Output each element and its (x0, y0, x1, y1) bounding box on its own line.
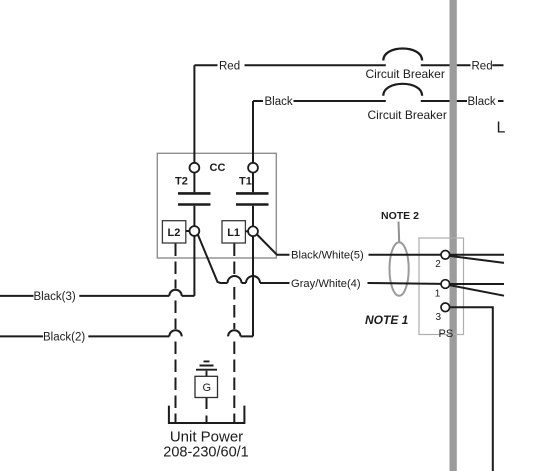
hop on Gray/White(4) wire over L1 feed wire (246, 276, 260, 283)
wire L1 junction diagonal to Black/White(5) (257, 234, 442, 255)
svg-text:PS: PS (439, 328, 454, 340)
svg-text:Unit Power: Unit Power (170, 429, 243, 446)
junction circle at L1 (248, 226, 258, 236)
svg-text:L: L (497, 120, 506, 137)
terminal L1 box (222, 221, 245, 243)
contact T1 upper stem (252, 173, 254, 193)
svg-text:3: 3 (436, 312, 442, 323)
plug PS terminal 1 wires (450, 284, 505, 296)
wire Red vertical to T2 (193, 65, 195, 163)
contact T2 bars (178, 193, 211, 204)
contactor CC enclosure box (157, 153, 276, 258)
plug PS connector box (419, 238, 464, 335)
svg-text:Black: Black (468, 96, 496, 108)
terminal T1 circle (248, 163, 258, 173)
hop on Black(3) wire over dashed line (169, 290, 181, 296)
plug PS terminal 3 circle (441, 303, 450, 312)
plug PS terminal 1 circle (441, 280, 450, 289)
wire Black horizontal segments (253, 100, 450, 102)
dashed line L2 to unit power (175, 244, 177, 423)
wire Black stub right of panel (457, 100, 504, 102)
svg-text:G: G (203, 382, 212, 394)
circuit breaker CB1 arc (383, 49, 422, 61)
svg-text:NOTE 1: NOTE 1 (365, 313, 409, 327)
svg-text:Red: Red (472, 60, 493, 72)
svg-text:1: 1 (435, 288, 441, 299)
NOTE 2 ellipse (field wiring marker) (390, 242, 409, 296)
wire Red stub right of panel (457, 64, 504, 66)
ground symbol (196, 361, 217, 369)
plug PS terminal 2 wires (450, 255, 505, 263)
svg-text:Circuit Breaker: Circuit Breaker (368, 108, 447, 122)
wire Red horizontal segments (194, 64, 449, 66)
contact T1 lower stem (252, 206, 254, 227)
wire Black(2) from left (0, 335, 169, 337)
dashed line G to unit power (206, 398, 208, 423)
terminal L2 box (162, 221, 185, 243)
svg-text:Black(2): Black(2) (43, 331, 85, 343)
svg-text:T2: T2 (175, 176, 188, 188)
svg-text:Black: Black (265, 96, 293, 108)
wire Black(3) from left (0, 295, 169, 297)
svg-text:2: 2 (435, 259, 441, 270)
ground G box (195, 376, 218, 397)
terminal T2 circle (190, 163, 200, 173)
NOTE 2 leader line (398, 222, 401, 243)
terminal L2 connector stub (186, 230, 190, 232)
wire L2 junction down to Black(3) (182, 236, 195, 296)
panel edge (gray vertical bar) (450, 0, 457, 471)
svg-text:NOTE 2: NOTE 2 (381, 210, 419, 222)
unit power bracket (169, 406, 245, 423)
ground stem (206, 371, 208, 377)
hop on Black(2) wire over dashed line L1 (228, 330, 240, 336)
plug PS terminal 2 circle (441, 251, 450, 260)
contact T1 bars (236, 193, 269, 204)
dashed line L1 to unit power (233, 244, 235, 423)
hop on Black(2) wire over dashed line L2 (169, 330, 181, 336)
wire L1 junction down to Black(2) (241, 236, 254, 336)
svg-text:Gray/White(4): Gray/White(4) (291, 278, 361, 290)
circuit breaker CB2 arc (383, 84, 422, 96)
wire Black vertical to T1 (252, 101, 254, 163)
junction circle at L2 (190, 226, 200, 236)
svg-text:T1: T1 (239, 176, 252, 188)
hop on Gray/White(4) wire over dashed line L1 (228, 276, 242, 283)
svg-text:208-230/60/1: 208-230/60/1 (163, 445, 248, 461)
svg-text:CC: CC (210, 162, 226, 174)
svg-text:L2: L2 (168, 227, 181, 239)
contact T2 upper stem (193, 173, 195, 193)
svg-text:Red: Red (219, 60, 240, 72)
terminal L1 connector stub (245, 230, 248, 232)
svg-text:Black/White(5): Black/White(5) (291, 250, 364, 262)
contact T2 lower stem (193, 206, 195, 226)
svg-text:L1: L1 (227, 227, 240, 239)
svg-text:Circuit Breaker: Circuit Breaker (366, 67, 445, 81)
svg-text:Black(3): Black(3) (34, 291, 76, 303)
wire L2 junction diagonal to Gray/White(4) (198, 235, 441, 284)
plug PS terminal 3 wire (450, 307, 493, 471)
